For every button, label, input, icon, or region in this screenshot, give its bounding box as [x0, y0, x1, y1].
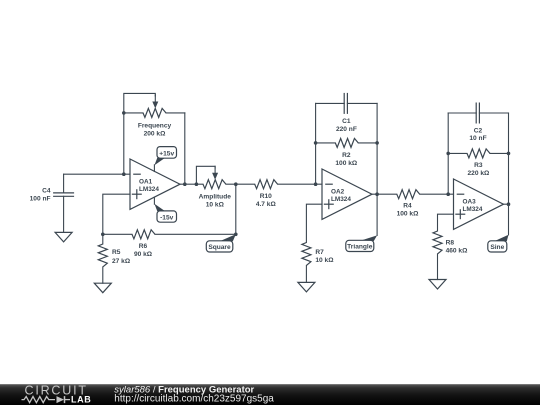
wire pot wiper loop: [124, 93, 156, 113]
node R5 R6 junction: [101, 233, 105, 237]
capacitor C2 10 nF: [448, 103, 508, 143]
resistor R6 90 kOhm: [103, 230, 155, 258]
resistor R10 4.7 kOhm: [255, 180, 278, 208]
wire OA1 non-inverting input: [103, 194, 130, 234]
wire Amplitude pot to R10: [226, 183, 255, 185]
svg-text:LM324: LM324: [139, 186, 159, 193]
resistor R8 460 kOhm: [433, 231, 468, 280]
svg-text:Amplitude: Amplitude: [199, 193, 232, 200]
svg-text:220 nF: 220 nF: [336, 126, 357, 133]
svg-text:R5: R5: [112, 249, 121, 256]
svg-text:100 kΩ: 100 kΩ: [335, 160, 358, 167]
node OA1 output junction: [183, 182, 187, 186]
wire Amplitude wiper loop: [196, 166, 215, 184]
resistor R5 27 kOhm: [98, 234, 131, 283]
svg-text:C1: C1: [342, 118, 351, 125]
resistor R4 100 kOhm: [397, 190, 420, 218]
capacitor C4: [30, 174, 74, 232]
wire Square net drop: [235, 184, 237, 234]
footer bar: [0, 383, 540, 405]
svg-text:+15v: +15v: [159, 150, 174, 157]
svg-text:27 kΩ: 27 kΩ: [112, 258, 131, 265]
wire OA2 feedback left vertical: [315, 103, 317, 184]
svg-text:Square: Square: [208, 244, 231, 251]
svg-text:C2: C2: [474, 127, 483, 134]
power flag -15v: [154, 197, 176, 222]
node Amplitude wiper loop junction: [195, 182, 199, 186]
ground below C4: [55, 232, 72, 242]
node R2 right: [375, 141, 379, 145]
svg-text:Triangle: Triangle: [347, 244, 373, 251]
wire R4 to OA3 inverting input: [420, 193, 454, 195]
wire OA3 output: [504, 203, 509, 205]
wire bottom feedback net: [155, 233, 236, 235]
svg-text:90 kΩ: 90 kΩ: [134, 251, 153, 258]
node Square net junction: [234, 182, 238, 186]
svg-text:R2: R2: [342, 152, 351, 159]
wire OA1 output to Amplitude pot: [180, 183, 203, 185]
svg-text:100 kΩ: 100 kΩ: [397, 211, 420, 218]
svg-text:10 kΩ: 10 kΩ: [315, 257, 334, 264]
wire feedback down to output node: [184, 113, 186, 184]
svg-text:Sine: Sine: [490, 244, 504, 251]
output flag Sine: [488, 235, 509, 252]
resistor R3 220 kOhm: [448, 149, 508, 177]
svg-text:OA1: OA1: [139, 179, 153, 186]
ground below R8: [429, 280, 446, 290]
node Square corner: [234, 233, 238, 237]
svg-text:http://circuitlab.com/ch23z597: http://circuitlab.com/ch23z597gs5ga: [114, 393, 274, 404]
svg-text:10 nF: 10 nF: [469, 135, 486, 142]
svg-text:200 kΩ: 200 kΩ: [144, 130, 167, 137]
svg-text:LM324: LM324: [463, 206, 483, 213]
svg-text:4.7 kΩ: 4.7 kΩ: [256, 201, 277, 208]
svg-text:R10: R10: [260, 193, 272, 200]
svg-text:460 kΩ: 460 kΩ: [446, 248, 469, 255]
svg-text:C4: C4: [42, 188, 51, 195]
wire from inverting net up to Frequency pot: [123, 113, 125, 174]
node OA2 inverting junction: [314, 182, 318, 186]
svg-text:R4: R4: [403, 203, 412, 210]
node pot left junction: [122, 111, 126, 115]
wire pot right lead: [166, 112, 185, 114]
wire OA2 non-inverting input: [306, 204, 322, 242]
node OA3 output junction: [507, 202, 511, 206]
wire OA1 inverting input net: [64, 173, 130, 175]
node R2 left: [314, 141, 318, 145]
ground below R5: [94, 283, 111, 293]
resistor R7 10 kOhm: [302, 243, 334, 283]
wire pot left lead: [124, 112, 143, 114]
capacitor C1 220 nF: [316, 93, 378, 133]
potentiometer Frequency 200 kOhm: [138, 95, 172, 137]
potentiometer Amplitude 10 kOhm: [199, 166, 232, 208]
resistor R2 100 kOhm: [316, 138, 378, 167]
svg-text:R7: R7: [315, 249, 324, 256]
wire OA3 feedback left vertical: [447, 113, 449, 194]
svg-text:LAB: LAB: [71, 394, 91, 404]
op-amp OA3 LM324: [454, 179, 504, 229]
output flag Triangle: [346, 235, 377, 251]
svg-text:-15v: -15v: [160, 214, 174, 221]
node OA3 inverting junction: [446, 192, 450, 196]
node R3 right: [507, 152, 511, 156]
ground below R7: [298, 282, 315, 292]
wire OA2 output to R4: [372, 193, 397, 195]
wire OA3 feedback right vertical: [508, 113, 510, 235]
svg-text:R6: R6: [139, 243, 148, 250]
svg-text:OA3: OA3: [463, 199, 477, 206]
wire R10 to OA2 inverting input: [278, 183, 322, 185]
svg-text:220 kΩ: 220 kΩ: [468, 170, 491, 177]
node junction inverting net / pot: [122, 172, 126, 176]
wire OA2 feedback right vertical: [376, 103, 378, 235]
node R3 left: [446, 152, 450, 156]
svg-text:10 kΩ: 10 kΩ: [206, 201, 225, 208]
op-amp OA2 LM324: [322, 169, 372, 219]
svg-text:OA2: OA2: [331, 189, 345, 196]
output flag Square: [206, 234, 236, 252]
svg-text:Frequency: Frequency: [138, 122, 172, 129]
svg-text:R3: R3: [474, 162, 483, 169]
wire OA3 non-inverting input: [438, 214, 454, 231]
svg-text:LM324: LM324: [331, 196, 351, 203]
svg-text:100 nF: 100 nF: [30, 196, 51, 203]
power flag +15v: [154, 147, 176, 172]
svg-text:R8: R8: [446, 240, 455, 247]
op-amp OA1 LM324: [130, 159, 180, 209]
node OA2 output junction: [375, 192, 379, 196]
